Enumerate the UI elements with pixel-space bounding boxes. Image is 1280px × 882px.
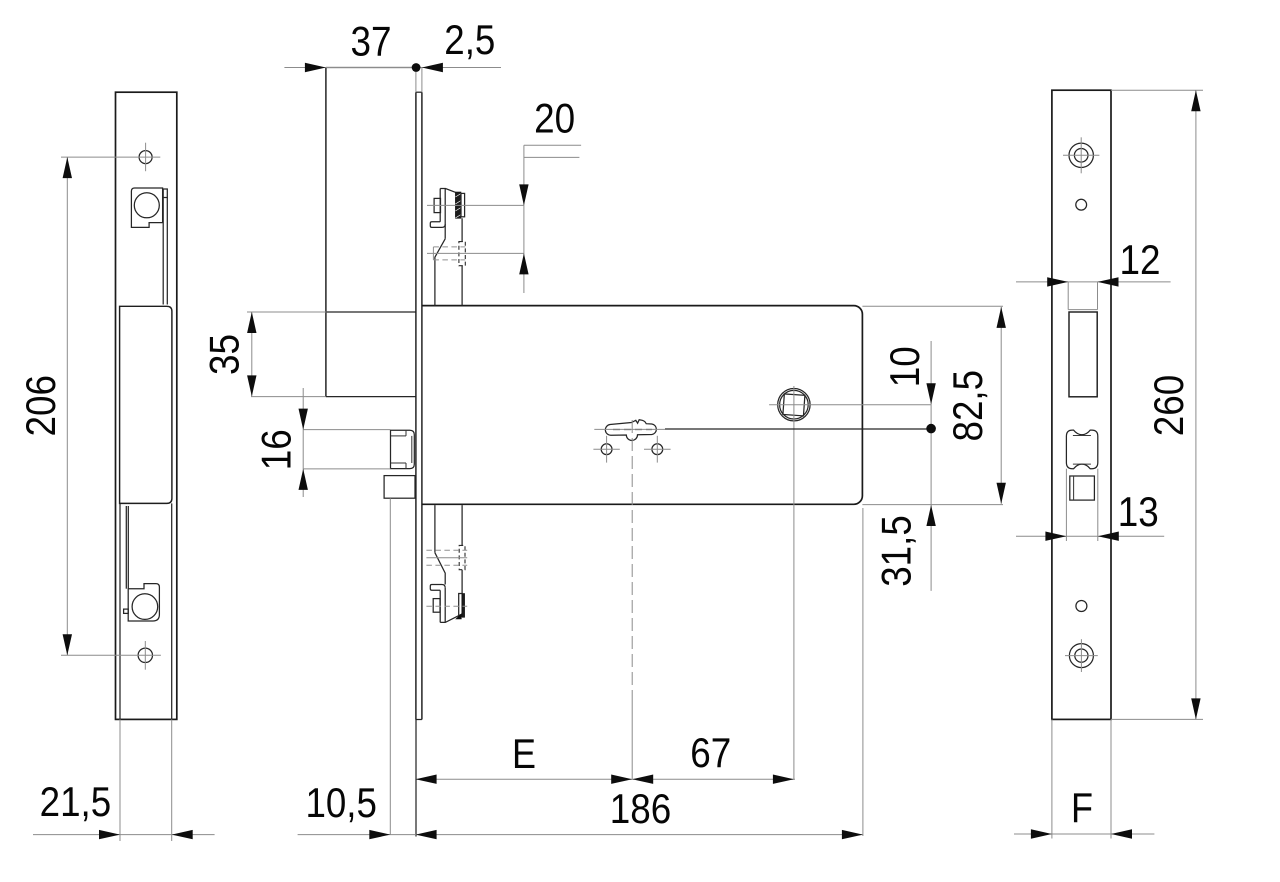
svg-text:82,5: 82,5: [944, 370, 991, 442]
svg-text:2,5: 2,5: [444, 16, 495, 63]
svg-text:37: 37: [351, 18, 392, 65]
svg-text:35: 35: [200, 334, 247, 375]
svg-text:20: 20: [534, 95, 575, 142]
svg-text:67: 67: [690, 729, 731, 776]
svg-text:F: F: [1071, 784, 1093, 831]
svg-text:186: 186: [610, 785, 672, 832]
svg-text:12: 12: [1120, 236, 1161, 283]
svg-text:206: 206: [17, 375, 64, 437]
svg-text:13: 13: [1118, 488, 1159, 535]
svg-text:16: 16: [253, 429, 300, 470]
svg-text:21,5: 21,5: [40, 778, 112, 825]
svg-text:31,5: 31,5: [873, 515, 920, 587]
svg-text:10,5: 10,5: [305, 779, 377, 826]
svg-text:10: 10: [881, 346, 928, 387]
svg-text:E: E: [512, 730, 536, 777]
svg-text:260: 260: [1145, 375, 1192, 437]
